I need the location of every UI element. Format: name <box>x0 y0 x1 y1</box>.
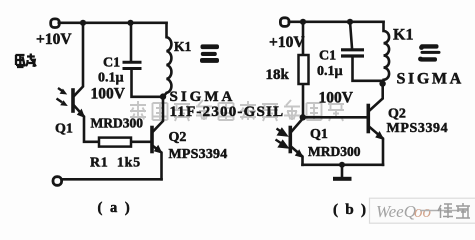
resistor R 18k (b) <box>299 55 309 84</box>
wire top rail (b) <box>289 20 384 23</box>
wire Q2 emitter (a) <box>153 146 162 179</box>
svg-text:Q1: Q1 <box>310 127 328 142</box>
terminal T3 (+10V input, circuit b) <box>280 18 289 27</box>
wire R1 to Q2 base (a) <box>132 141 151 144</box>
svg-text:oo: oo <box>414 202 431 221</box>
svg-text:MRD300: MRD300 <box>91 116 144 131</box>
resistor R1 (a) <box>99 138 131 147</box>
node: ground tap (b) <box>339 162 345 168</box>
wire bottom rail (b) <box>303 164 384 167</box>
wire C1 top lead (a) <box>130 23 133 61</box>
wire Q1 emitter (a) <box>74 106 99 142</box>
wire Q1 collector lead (a) <box>74 23 83 96</box>
svg-text:WeeQ: WeeQ <box>376 202 416 221</box>
Q2 emitter arrowhead (a) <box>154 145 163 154</box>
svg-text:K1: K1 <box>393 27 413 44</box>
junction dots (b) <box>300 19 386 168</box>
wire Q2 base from node (b) <box>303 116 367 119</box>
transistor Q2 bar (b) <box>366 106 370 132</box>
light arrows into Q1 (a) <box>57 88 68 106</box>
terminal T2 (bottom, circuit a) <box>53 177 62 186</box>
inductor K1 relay coil (b) <box>383 22 389 83</box>
wire top rail (a) <box>59 21 167 24</box>
svg-text:SIGMA: SIGMA <box>170 89 236 105</box>
junction dots (a) <box>80 20 166 100</box>
svg-text:MPS3394: MPS3394 <box>169 147 228 162</box>
wire Q1 collector (b) <box>292 119 303 132</box>
svg-text:MPS3394: MPS3394 <box>387 121 449 136</box>
capacitor C1 plates (a) <box>123 62 142 68</box>
svg-text:Q2: Q2 <box>388 107 406 122</box>
Q1 emitter arrowhead (a) <box>77 109 85 118</box>
维库 pseudo glyphs <box>438 203 470 218</box>
relay contact symbol (b) <box>418 44 440 61</box>
transistor Q2 bar (a) <box>150 128 154 152</box>
svg-text:18k: 18k <box>266 67 290 83</box>
svg-text:Q1: Q1 <box>55 122 73 137</box>
svg-text:0.1µ: 0.1µ <box>317 64 343 79</box>
wire C1 bottom to junction (b) <box>353 58 383 84</box>
node: rail/Q1 collector (a) <box>80 20 86 26</box>
node: 18k/Q1 collector/Q2 base (b) <box>300 114 306 120</box>
wire bottom rail (a) <box>61 178 162 181</box>
ground stem (b) <box>341 165 344 177</box>
terminal T1 (+10V input, circuit a) <box>51 19 60 28</box>
transistor Q1 bar (a) <box>71 90 75 111</box>
svg-text:( b ): ( b ) <box>333 202 368 218</box>
svg-text:+10V: +10V <box>36 31 72 48</box>
svg-text:+10V: +10V <box>269 34 305 51</box>
node: coil/C1/Q2 collector (b) <box>379 80 385 86</box>
svg-text:C1: C1 <box>103 56 120 71</box>
Q1 emitter arrowhead (b) <box>295 149 304 158</box>
relay contact symbol (a) <box>200 44 219 63</box>
svg-text:0.1µ: 0.1µ <box>98 71 124 86</box>
wire Q2 collector (b) <box>370 84 383 111</box>
svg-text:SIGMA: SIGMA <box>397 71 464 88</box>
inductor K1 relay coil (a) <box>164 23 172 97</box>
svg-text:100V: 100V <box>319 90 354 107</box>
svg-text:Q2: Q2 <box>169 130 187 145</box>
node: rail/C1 (b) <box>347 19 353 25</box>
node: rail/C1 (a) <box>127 20 133 26</box>
svg-text:11F-2300-GSIL: 11F-2300-GSIL <box>170 104 285 120</box>
ground symbol bar (b) <box>333 177 352 181</box>
capacitor C1 plates (b) <box>341 50 364 56</box>
label 驱动 (drive) pseudo glyphs <box>16 54 36 68</box>
transistor Q1 bar (b) <box>288 128 292 152</box>
wire Q2 collector (a) <box>153 97 163 132</box>
node: coil/C1/collector (a) <box>160 93 166 99</box>
wire C1 top lead (b) <box>350 22 352 48</box>
Q2 emitter arrowhead (b) <box>375 131 384 140</box>
svg-text:K1: K1 <box>174 39 192 54</box>
svg-text:100V: 100V <box>91 86 126 103</box>
light arrows into Q1 (b) <box>276 129 288 148</box>
wire Q2 emitter (b) <box>370 127 384 165</box>
svg-text:( a ): ( a ) <box>98 200 132 216</box>
svg-text:MRD300: MRD300 <box>308 144 361 159</box>
wire 18k bottom lead (b) <box>302 84 305 117</box>
node: rail/18k (b) <box>300 19 306 25</box>
wire 18k top lead (b) <box>302 22 305 55</box>
watermark text 杭州将睿科技有限公司 <box>130 100 344 121</box>
svg-text:R1 1k5: R1 1k5 <box>90 156 141 171</box>
wire C1 bottom to junction (a) <box>132 70 164 97</box>
svg-text:C1: C1 <box>319 49 336 64</box>
wire Q1 emitter (b) <box>292 147 303 165</box>
